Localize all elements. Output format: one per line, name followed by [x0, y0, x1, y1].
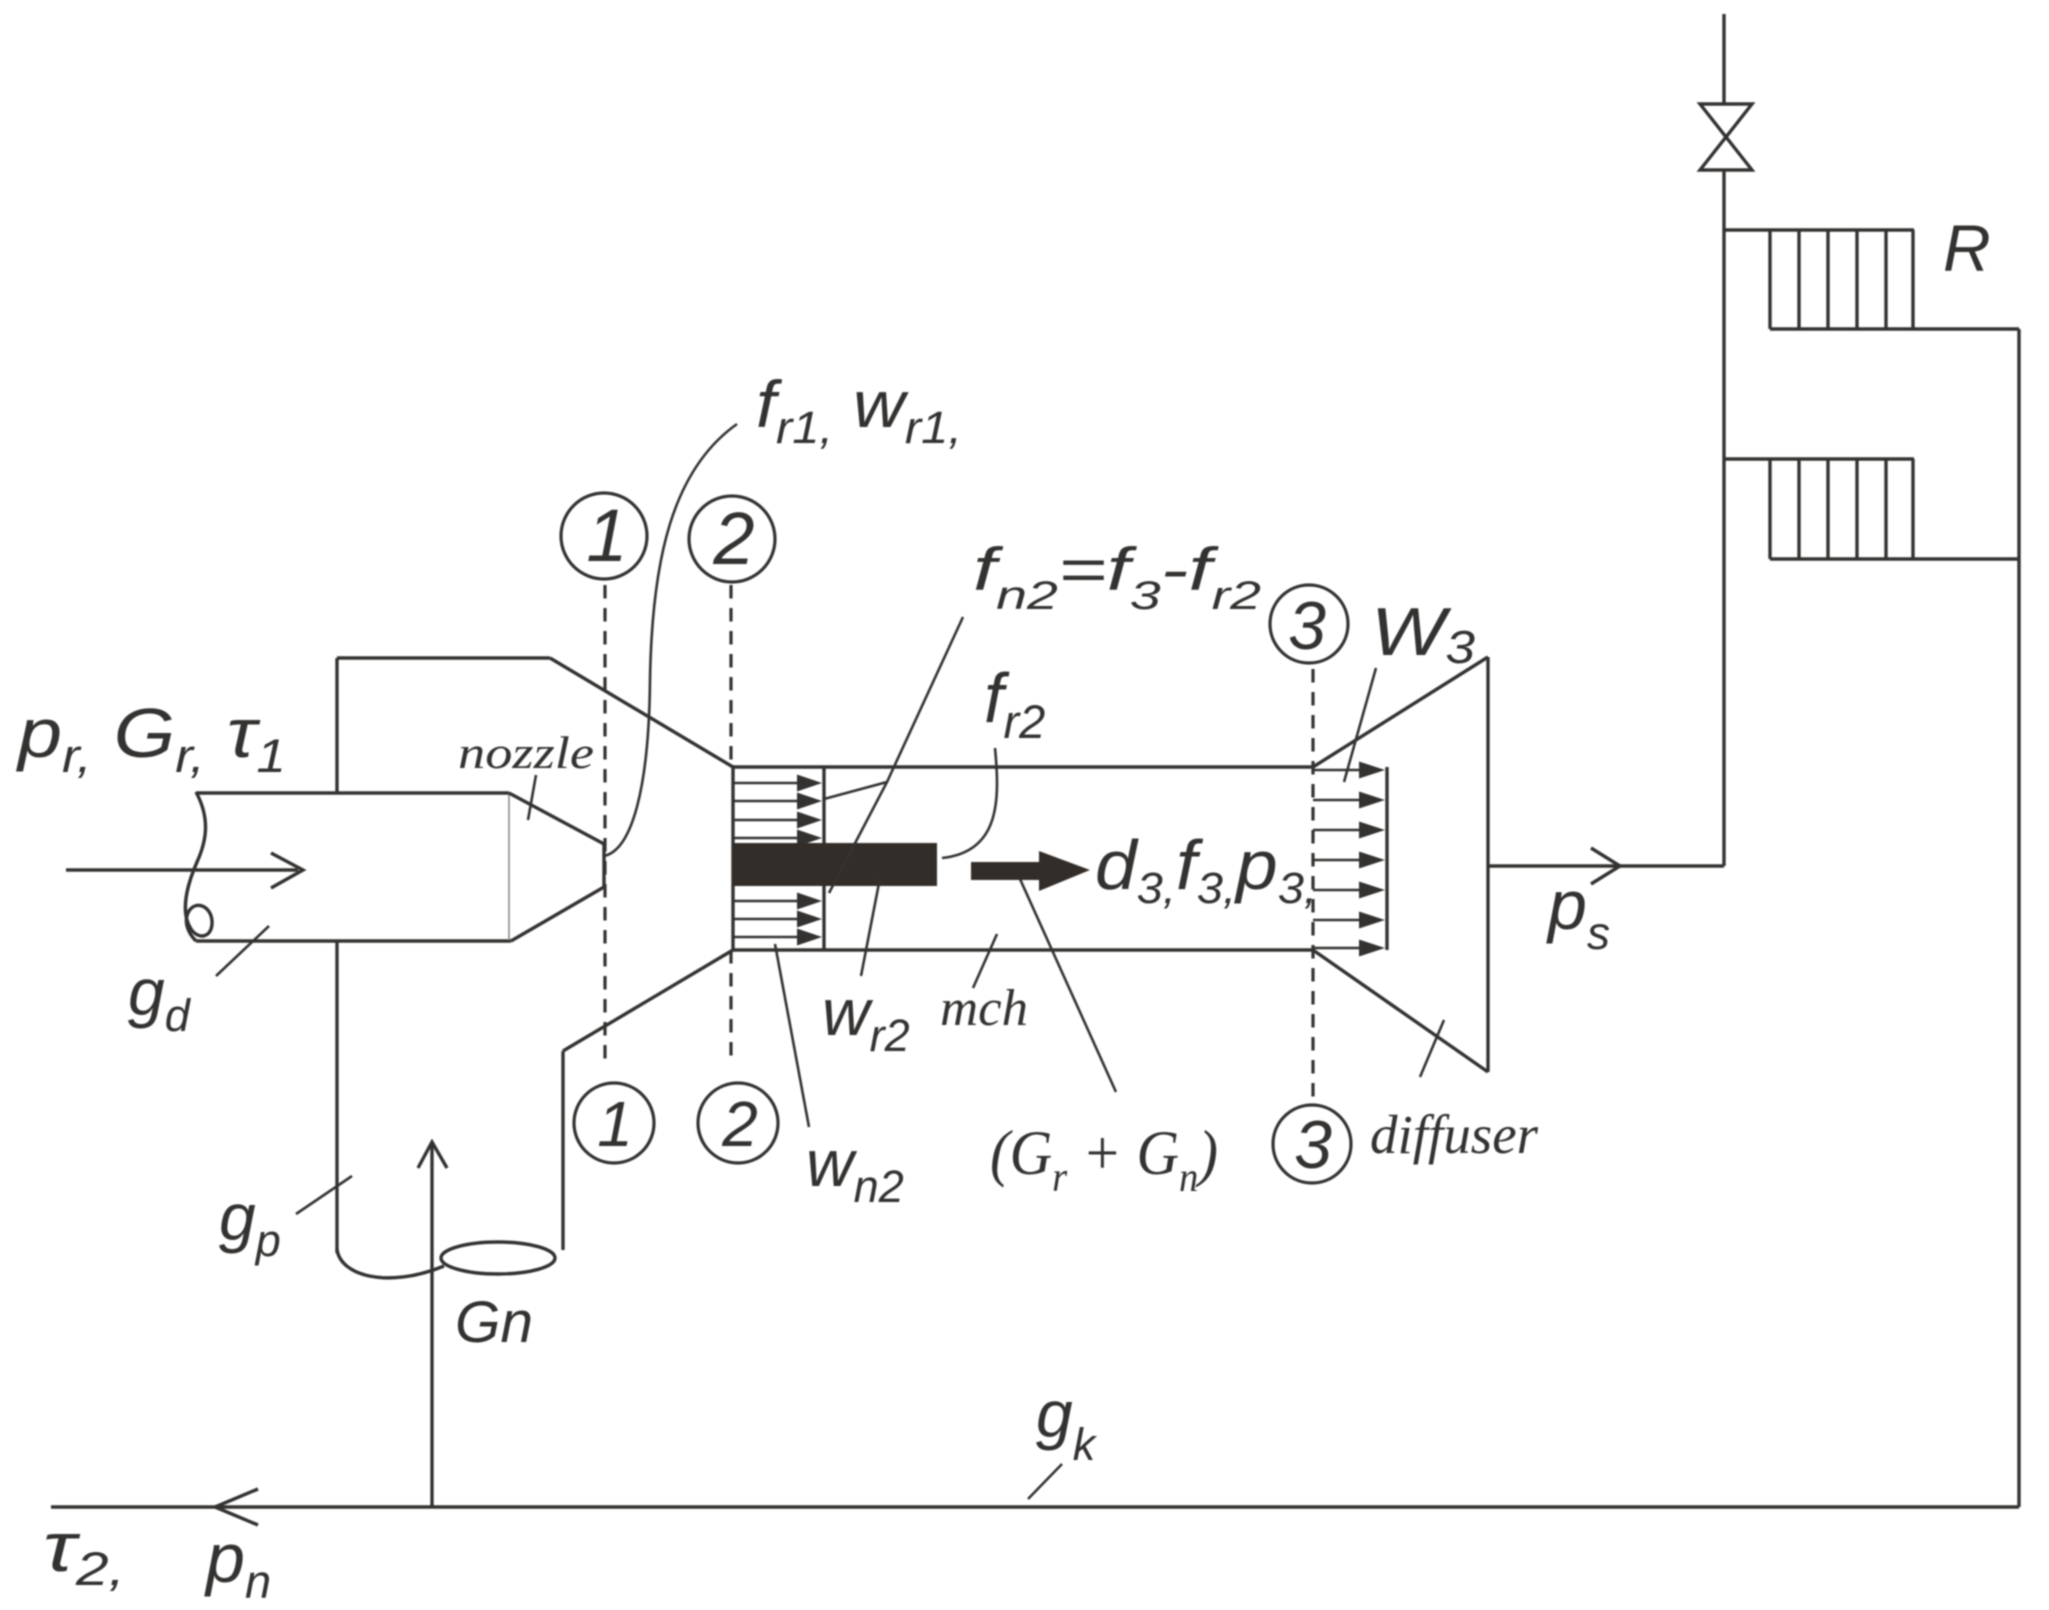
exit velocity profile arrows	[1313, 762, 1385, 957]
dashed line section 2 lower	[729, 950, 732, 1060]
svg-text:R: R	[1943, 211, 1991, 285]
mixing chamber bottom wall	[733, 948, 1313, 951]
diffuser label tick	[1420, 1020, 1444, 1077]
suction chamber left wall	[335, 941, 338, 1253]
suction chamber lower converging wall	[563, 950, 733, 1051]
pipe stub above valve	[1722, 14, 1725, 104]
heat exchanger lower coil bottom edge	[1770, 557, 2019, 560]
svg-text:2: 2	[712, 497, 754, 580]
mixing chamber top wall	[733, 765, 1313, 768]
inlet pipe break squiggle	[185, 792, 212, 941]
fn2 leader line	[824, 617, 963, 799]
dashed section lines	[605, 585, 1313, 1117]
heat exchanger upper coil top edge	[1724, 228, 1914, 231]
suction pipe break ellipse	[441, 1242, 555, 1274]
central flow thick arrow	[971, 851, 1090, 891]
dashed line section 2 upper	[729, 585, 732, 767]
svg-text:diffuser: diffuser	[1370, 1104, 1539, 1165]
gk label tick	[1028, 1464, 1062, 1499]
suction pipe break wave	[337, 1249, 444, 1278]
mixing chamber entrance section line	[731, 767, 734, 950]
svg-text:Gn: Gn	[455, 1290, 533, 1355]
svg-text:1: 1	[586, 494, 627, 577]
outlet line ps	[1488, 864, 1724, 867]
mch label tick	[973, 934, 997, 988]
nozzle label tick	[528, 775, 536, 820]
heat exchanger lower coil fins	[1768, 459, 1771, 559]
bottom return arrowhead	[215, 1489, 258, 1525]
nozzle body top edge	[337, 656, 550, 659]
diffuser outlet edge	[1486, 657, 1489, 1072]
circle 1 top	[561, 493, 647, 579]
nozzle body left edge	[335, 658, 338, 793]
exit profile envelope line	[1385, 767, 1388, 950]
svg-text:pr, Gr, τ1: pr, Gr, τ1	[16, 694, 286, 782]
inlet pipe bottom wall	[196, 939, 511, 942]
gp label tick	[296, 1176, 352, 1214]
svg-text:nozzle: nozzle	[458, 727, 594, 778]
inlet pipe top wall	[196, 791, 509, 794]
inlet flow arrow	[66, 868, 298, 871]
svg-text:3: 3	[1288, 588, 1326, 664]
heat exchanger upper coil fins	[1768, 230, 1771, 329]
circle 2 bottom	[698, 1083, 778, 1163]
pointer / leader lines	[216, 424, 1444, 1499]
suction chamber upper converging wall	[550, 658, 733, 767]
wn2 leader line	[775, 944, 809, 1127]
dashed line section 3	[1311, 669, 1314, 1117]
outlet arrowhead	[1591, 848, 1620, 884]
section circles	[561, 493, 1351, 1183]
valve lower triangle	[1700, 137, 1752, 170]
entrance profile envelope line	[822, 767, 825, 950]
gd label tick	[216, 926, 269, 976]
nozzle tip exit line	[602, 844, 605, 887]
circle 2 top	[689, 496, 775, 582]
diffuser top wall	[1313, 657, 1488, 767]
leader through jet core	[829, 782, 887, 893]
fr1 wr1 leader curve	[604, 424, 737, 856]
circle 1 bottom	[574, 1083, 654, 1163]
Gr+Gn leader line	[1020, 879, 1116, 1092]
circle 3 top	[1270, 585, 1348, 663]
Gn arrowhead	[418, 1142, 447, 1168]
nozzle converging bottom wall	[511, 887, 604, 941]
bottom return line	[51, 1505, 2019, 1508]
Gn riser line	[430, 1143, 433, 1507]
svg-text:3: 3	[1294, 1107, 1332, 1183]
svg-text:1: 1	[597, 1088, 633, 1160]
heat exchanger upper coil bottom edge	[1770, 327, 2019, 330]
dashed line section 1	[603, 585, 606, 1064]
suction inlet right wall	[561, 1051, 564, 1250]
jet core dark band	[733, 843, 937, 886]
svg-text:2: 2	[721, 1088, 758, 1160]
nozzle converging top wall	[509, 793, 604, 844]
circle 3 bottom	[1273, 1105, 1351, 1183]
diffuser bottom wall	[1313, 950, 1488, 1072]
downcomer pipe	[2017, 329, 2020, 1507]
W3 label tick	[1344, 668, 1376, 782]
svg-text:mch: mch	[940, 980, 1028, 1037]
wr2 leader line	[861, 878, 880, 976]
valve upper triangle	[1700, 104, 1752, 137]
inlet pipe end section line	[508, 794, 510, 940]
riser pipe to valve	[1722, 170, 1725, 866]
fr2 leader hook	[942, 748, 997, 858]
entrance velocity profile arrows	[734, 775, 822, 946]
heat exchanger lower coil top edge	[1724, 457, 1914, 460]
